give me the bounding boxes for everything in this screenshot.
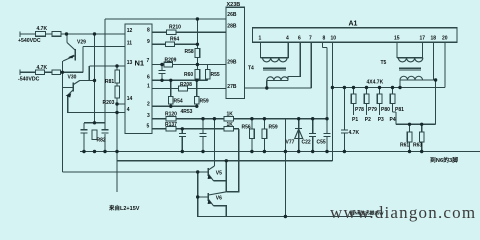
svg-text:T4: T4 [248, 66, 254, 72]
svg-text:P80: P80 [381, 107, 390, 113]
svg-text:R60: R60 [184, 72, 193, 78]
svg-text:N1: N1 [135, 59, 145, 68]
svg-text:13: 13 [127, 60, 133, 66]
svg-text:6: 6 [298, 36, 301, 42]
svg-text:R58: R58 [185, 49, 194, 55]
svg-text:7: 7 [309, 36, 312, 42]
svg-text:4.7K: 4.7K [37, 26, 48, 32]
svg-text:4.7K: 4.7K [349, 130, 360, 136]
svg-text:P3: P3 [378, 117, 384, 123]
svg-text:-540VDC: -540VDC [18, 77, 40, 83]
svg-text:P79: P79 [368, 107, 377, 113]
svg-text:4R53: 4R53 [181, 109, 193, 115]
svg-text:R64: R64 [170, 37, 179, 43]
svg-text:11: 11 [127, 41, 133, 47]
svg-text:C55: C55 [317, 140, 326, 146]
svg-text:R81: R81 [105, 79, 114, 85]
svg-text:A1: A1 [349, 21, 358, 28]
svg-text:T5: T5 [381, 60, 387, 66]
svg-text:R209: R209 [165, 58, 177, 64]
svg-text:4X4.7K: 4X4.7K [367, 80, 384, 86]
svg-text:1K: 1K [227, 112, 234, 118]
svg-text:4: 4 [127, 107, 130, 113]
svg-text:12: 12 [127, 28, 133, 34]
svg-text:4: 4 [286, 36, 289, 42]
svg-text:V6: V6 [216, 196, 222, 202]
svg-text:2: 2 [147, 102, 150, 108]
svg-text:来自L2+15V: 来自L2+15V [108, 204, 140, 212]
svg-text:10: 10 [331, 36, 337, 42]
svg-text:18: 18 [431, 36, 437, 42]
svg-text:V30: V30 [68, 75, 77, 81]
svg-text:V5: V5 [216, 171, 222, 177]
svg-text:R63: R63 [413, 143, 422, 149]
svg-text:P2: P2 [365, 117, 371, 123]
svg-text:R55: R55 [211, 72, 220, 78]
svg-text:R203: R203 [103, 100, 115, 106]
svg-text:8: 8 [323, 36, 326, 42]
svg-text:26B: 26B [227, 12, 237, 18]
svg-text:V77: V77 [286, 140, 295, 146]
svg-text:1K: 1K [227, 122, 234, 128]
svg-text:3: 3 [147, 113, 150, 119]
svg-text:P1: P1 [352, 117, 358, 123]
svg-text:C22: C22 [302, 140, 311, 146]
svg-text:6: 6 [147, 75, 150, 81]
svg-text:R82: R82 [97, 138, 106, 144]
svg-text:R210: R210 [169, 25, 181, 31]
svg-text:R208: R208 [180, 82, 192, 88]
svg-text:X23B: X23B [227, 2, 241, 8]
svg-text:www.diangon.com: www.diangon.com [330, 203, 476, 222]
svg-text:28B: 28B [227, 24, 237, 30]
svg-text:8: 8 [147, 28, 150, 34]
svg-text:P4: P4 [390, 117, 396, 123]
svg-text:R56: R56 [242, 124, 251, 130]
svg-text:4.7K: 4.7K [37, 65, 48, 71]
svg-text:15: 15 [394, 36, 400, 42]
svg-text:P78: P78 [355, 107, 364, 113]
svg-text:5: 5 [147, 124, 150, 130]
svg-text:R54: R54 [174, 99, 183, 105]
svg-text:P81: P81 [395, 107, 404, 113]
svg-text:R61: R61 [400, 143, 409, 149]
svg-text:27B: 27B [227, 84, 237, 90]
svg-text:20: 20 [442, 36, 448, 42]
svg-text:R59: R59 [200, 99, 209, 105]
svg-text:29B: 29B [227, 60, 237, 66]
svg-text:+540VDC: +540VDC [18, 38, 41, 44]
svg-text:1: 1 [147, 84, 150, 90]
svg-text:R59: R59 [269, 124, 278, 130]
svg-text:V29: V29 [77, 40, 86, 46]
svg-text:14: 14 [127, 96, 133, 102]
svg-text:R120: R120 [165, 112, 177, 118]
svg-text:1: 1 [259, 36, 262, 42]
svg-text:R137: R137 [165, 122, 177, 128]
svg-text:9: 9 [147, 39, 150, 45]
svg-text:到N6的3脚: 到N6的3脚 [430, 156, 458, 164]
svg-text:17: 17 [420, 36, 426, 42]
svg-text:7: 7 [147, 58, 150, 64]
